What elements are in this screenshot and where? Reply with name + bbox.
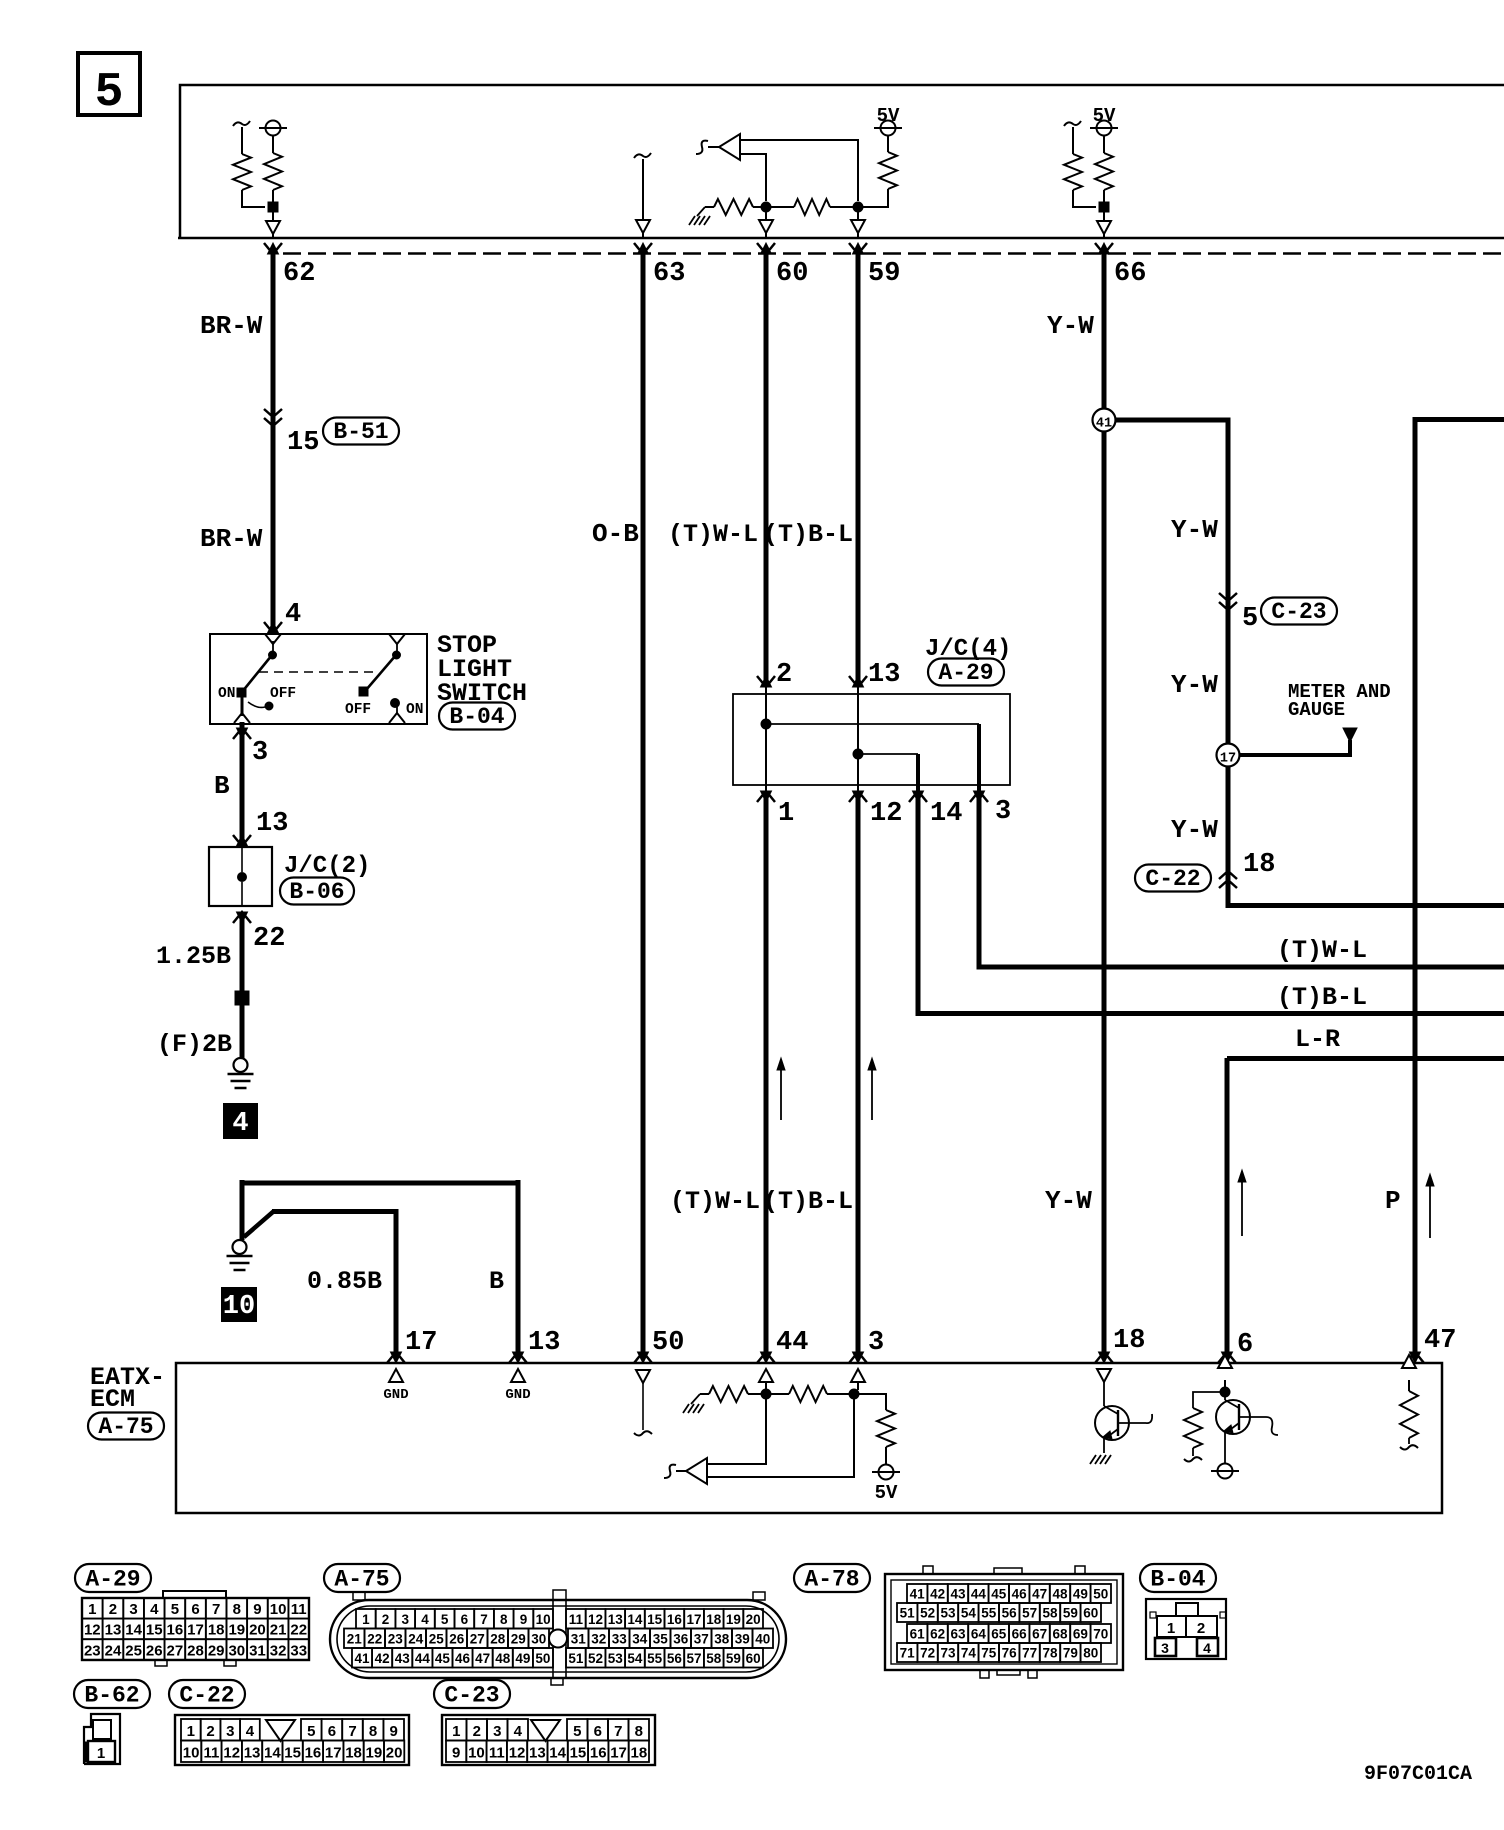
svg-text:17: 17 [187,1622,204,1639]
svg-text:Y-W: Y-W [1171,515,1218,545]
svg-text:69: 69 [1073,1627,1088,1642]
svg-text:8: 8 [500,1612,508,1627]
svg-text:45: 45 [435,1651,451,1666]
svg-text:4: 4 [150,1601,159,1618]
svg-text:25: 25 [429,1632,445,1647]
connector C-23 body [442,1715,655,1765]
svg-text:OFF: OFF [270,686,296,702]
svg-text:29: 29 [208,1642,225,1659]
svg-text:70: 70 [1093,1627,1108,1642]
wire 1.25B (J/C2 to splice) [240,912,245,998]
svg-text:6: 6 [328,1723,336,1740]
svg-text:8: 8 [369,1723,377,1740]
svg-text:7: 7 [348,1723,356,1740]
floating lead (pin 63) [634,153,651,158]
resistor R-b (pull-up pair right, pin 62) [272,136,274,154]
svg-text:C-23: C-23 [1271,599,1326,625]
svg-text:24: 24 [105,1642,122,1659]
svg-text:16: 16 [167,1622,184,1639]
resistor R-d (divider right) [771,206,794,208]
svg-text:17: 17 [687,1612,702,1627]
svg-text:30: 30 [531,1632,546,1647]
svg-text:50: 50 [652,1328,684,1358]
connector A-29 top tab [163,1591,226,1598]
svg-text:8: 8 [233,1601,241,1618]
connector A-75 body [330,1600,786,1678]
svg-text:4: 4 [514,1723,523,1740]
connector B-04 body [1146,1599,1226,1659]
ECM pin 6 [1218,1352,1236,1363]
svg-text:60: 60 [746,1651,761,1666]
svg-text:23: 23 [84,1642,101,1659]
svg-text:22: 22 [253,924,285,954]
GND symbol pin 17 [389,1369,403,1382]
svg-text:36: 36 [673,1632,689,1647]
wire 59 through J/C4 [857,687,859,791]
svg-text:44: 44 [415,1651,431,1666]
svg-text:12: 12 [84,1622,101,1639]
svg-text:41: 41 [355,1651,371,1666]
svg-text:11: 11 [291,1601,307,1618]
resistor R-i (Q2 base) [1193,1392,1225,1408]
svg-text:33: 33 [612,1632,628,1647]
svg-text:12: 12 [223,1745,240,1762]
arrow out J/C4 pin 12 [849,791,867,802]
svg-text:2: 2 [473,1723,481,1740]
pin 63 (top module) [634,243,652,254]
junction dot node 59 [853,202,863,212]
svg-text:19: 19 [726,1612,741,1627]
svg-text:37: 37 [694,1632,709,1647]
svg-text:2: 2 [109,1601,117,1618]
svg-text:6: 6 [461,1612,469,1627]
svg-text:6: 6 [191,1601,199,1618]
svg-text:6: 6 [1237,1330,1253,1360]
svg-text:GND: GND [505,1387,530,1403]
svg-text:54: 54 [961,1606,977,1621]
connector label oval B-62 [74,1680,150,1708]
svg-text:3: 3 [868,1328,884,1358]
ECM pin 47 [1406,1352,1424,1363]
junction circle 41 [1102,409,1107,431]
resistor R-j (pin 47) [1400,1391,1418,1438]
svg-text:43: 43 [950,1587,966,1602]
ground G4 [234,1058,248,1072]
svg-text:46: 46 [1012,1587,1028,1602]
svg-text:17: 17 [405,1328,437,1358]
svg-text:60: 60 [1083,1606,1098,1621]
svg-text:23: 23 [388,1632,404,1647]
svg-text:67: 67 [1032,1627,1047,1642]
svg-text:15: 15 [570,1745,587,1762]
svg-text:(T)W-L: (T)W-L [668,520,758,549]
arrow into pin 59 [857,212,859,220]
svg-text:45: 45 [991,1587,1007,1602]
power node circle (pin62 pull-up) [266,121,281,136]
transistor Q2 (pin 6) [1224,1392,1226,1400]
svg-text:2: 2 [1197,1620,1205,1637]
svg-text:15: 15 [647,1612,663,1627]
ECM pin 50 [634,1352,652,1363]
svg-text:5: 5 [441,1612,449,1627]
svg-text:17: 17 [610,1745,627,1762]
svg-text:9: 9 [253,1601,261,1618]
wire Y-W to bus right [1228,872,1504,906]
svg-text:33: 33 [290,1642,307,1659]
arrow right switch to box bottom [396,707,398,713]
svg-text:55: 55 [981,1606,997,1621]
flow arrow wire 47 [1429,1184,1431,1238]
svg-text:18: 18 [208,1622,225,1639]
svg-text:18: 18 [345,1745,362,1762]
svg-text:11: 11 [569,1612,584,1627]
wire 0.85B horizontal (to pin17) [244,1211,274,1237]
junction dot (pin62 network) [268,202,278,212]
arrow into pin 66 [1103,212,1105,221]
svg-text:52: 52 [920,1606,935,1621]
stop light switch box B-04 [210,634,427,724]
lead pin 47 triangle [1402,1355,1416,1368]
ground hatch Q1 emitter [1090,1455,1096,1464]
svg-text:47: 47 [475,1651,490,1666]
arrow out of J/C2 pin 22 [233,912,251,923]
svg-text:(T)B-L: (T)B-L [1277,983,1367,1012]
svg-text:53: 53 [608,1651,624,1666]
wire B down to pin 13 [516,1180,521,1352]
connector C-22 body [175,1715,409,1765]
svg-text:10: 10 [536,1612,551,1627]
svg-text:58: 58 [706,1651,722,1666]
resistor R-a (pull-up pair left, pin 62) [233,121,250,126]
svg-text:56: 56 [667,1651,683,1666]
ECM pin 18 [1095,1352,1113,1363]
svg-text:51: 51 [568,1651,584,1666]
resistor R-g (bottom divider left) [700,1393,709,1395]
svg-text:42: 42 [930,1587,945,1602]
svg-text:4: 4 [285,600,301,630]
svg-text:2: 2 [776,660,792,690]
svg-text:9: 9 [452,1745,460,1762]
junction dot J/C4 node B-L [853,749,863,759]
ECM pin 44 [757,1352,775,1363]
svg-text:21: 21 [347,1632,363,1647]
resistor R-h (bottom divider right) [771,1393,789,1395]
svg-text:18: 18 [1243,850,1275,880]
svg-text:0.85B: 0.85B [307,1267,382,1296]
arrow out J/C4 pin 3 [970,791,988,802]
inline connector B-51 pin 15 [264,409,282,417]
svg-text:11: 11 [204,1745,220,1762]
wire BR-W lower (B-51 to switch) [271,429,276,633]
svg-text:1.25B: 1.25B [156,942,231,971]
svg-text:20: 20 [746,1612,761,1627]
svg-text:71: 71 [900,1646,916,1661]
svg-text:78: 78 [1042,1646,1058,1661]
svg-text:28: 28 [490,1632,506,1647]
wire buffer top input to node 59 [740,140,858,201]
junction dot node 44 [761,1389,771,1399]
svg-text:77: 77 [1022,1646,1037,1661]
svg-text:60: 60 [776,259,808,289]
svg-text:27: 27 [470,1632,485,1647]
op-amp buffer U-top [719,134,740,160]
svg-text:1: 1 [452,1723,460,1740]
svg-text:59: 59 [1063,1606,1078,1621]
junction circle 17 [1217,744,1240,767]
wire BR-W upper (pin62 to B-51) [271,254,276,633]
svg-text:GND: GND [383,1387,408,1403]
svg-text:74: 74 [961,1646,977,1661]
wire (T)W-L (pin60 to J/C4) [764,254,769,684]
svg-text:40: 40 [755,1632,770,1647]
svg-text:BR-W: BR-W [200,524,263,554]
svg-text:59: 59 [868,259,900,289]
svg-text:63: 63 [653,259,685,289]
switch arm right (OFF side) [389,634,405,644]
wire (F)2B to ground [240,1005,245,1058]
svg-text:49: 49 [1073,1587,1088,1602]
svg-text:(F)2B: (F)2B [157,1030,232,1059]
junction box J/C(2) [209,847,272,906]
wire node 14 to (T)B-L bus [918,791,1504,1014]
svg-text:4: 4 [232,1109,248,1139]
ground hatch (top divider) [697,207,705,216]
svg-text:41: 41 [1096,417,1112,432]
svg-text:22: 22 [367,1632,382,1647]
svg-text:16: 16 [667,1612,683,1627]
svg-text:28: 28 [187,1642,204,1659]
svg-text:3: 3 [226,1723,234,1740]
svg-text:13: 13 [528,1328,560,1358]
svg-text:10: 10 [270,1601,287,1618]
svg-text:14: 14 [627,1612,643,1627]
svg-text:13: 13 [244,1745,261,1762]
junction dot node 6 [1220,1387,1230,1397]
wire O-B (pin63 to pin50) [641,254,646,1352]
svg-text:5: 5 [1242,604,1258,634]
ground ref box 4 [224,1104,257,1138]
svg-text:76: 76 [1002,1646,1018,1661]
svg-text:48: 48 [495,1651,511,1666]
svg-text:55: 55 [647,1651,663,1666]
svg-text:43: 43 [395,1651,411,1666]
svg-text:14: 14 [264,1745,281,1762]
connector A-75 tabs [353,1592,365,1600]
connector label oval A-78 [794,1564,870,1592]
connector oval C-23 (inline) [1261,598,1337,625]
arrow into J/C4 pin 2 [757,676,775,687]
svg-text:C-22: C-22 [179,1683,234,1709]
svg-text:10: 10 [223,1292,255,1322]
switch arm left (ON side) [272,641,274,655]
lead pin 6 triangle [1218,1355,1232,1368]
wire Y-W (17 to C-22) [1226,766,1231,906]
svg-text:1: 1 [88,1601,96,1618]
svg-text:B: B [214,771,230,801]
svg-text:C-23: C-23 [444,1683,499,1709]
wire from 41 to C-23 branch [1115,420,1228,744]
svg-text:31: 31 [571,1632,587,1647]
svg-text:O-B: O-B [592,519,639,549]
svg-text:59: 59 [726,1651,741,1666]
svg-text:B-62: B-62 [84,1683,139,1709]
svg-text:Y-W: Y-W [1047,311,1094,341]
svg-text:25: 25 [125,1642,142,1659]
flow arrow wire 3 [871,1068,873,1120]
svg-text:11: 11 [489,1745,505,1762]
svg-text:5: 5 [171,1601,179,1618]
svg-text:49: 49 [515,1651,530,1666]
pin 60 (top module) [757,243,775,254]
svg-text:41: 41 [910,1587,926,1602]
svg-text:9: 9 [520,1612,528,1627]
svg-text:66: 66 [1012,1627,1028,1642]
wire B (switch to J/C2) [240,722,245,839]
svg-text:39: 39 [735,1632,750,1647]
inline connector C-22 pin 18 [1219,880,1237,888]
arrow into switch pin 4 [264,622,282,633]
lead pin 44 triangle [759,1369,773,1382]
svg-text:12: 12 [588,1612,603,1627]
svg-text:1: 1 [778,799,794,829]
arrow into J/C2 [233,835,251,846]
svg-text:22: 22 [290,1622,307,1639]
wire node3 to buffer bottom input [707,1399,854,1477]
svg-text:68: 68 [1052,1627,1068,1642]
connector label oval C-23 [434,1680,510,1708]
svg-text:A-75: A-75 [98,1414,153,1440]
svg-text:16: 16 [590,1745,607,1762]
transistor Q1 (pin 18) [1095,1406,1129,1440]
pin 59 (top module) [849,243,867,254]
svg-text:46: 46 [455,1651,471,1666]
arrow out J/C4 pin 14 [909,791,927,802]
svg-text:B-51: B-51 [333,419,388,445]
svg-text:1: 1 [97,1745,105,1762]
op-amp buffer U-bot [686,1458,707,1484]
wire node 3 to (T)W-L bus [979,791,1504,967]
arrow out J/C4 pin 1 [757,791,775,802]
svg-text:OFF: OFF [345,702,371,718]
svg-text:21: 21 [270,1622,287,1639]
svg-text:31: 31 [249,1642,266,1659]
svg-text:5V: 5V [875,1482,898,1504]
wire (T)B-L down (J/C4 pin12 to ECM 3) [856,791,861,1352]
svg-text:50: 50 [535,1651,550,1666]
svg-text:A-29: A-29 [85,1567,140,1593]
svg-text:3: 3 [129,1601,137,1618]
svg-text:65: 65 [991,1627,1007,1642]
wire 60 through J/C4 [765,687,767,791]
connector B-62 body [84,1714,120,1764]
junction dot (pin66 network) [1099,202,1109,212]
svg-text:3: 3 [401,1612,409,1627]
svg-text:19: 19 [228,1622,245,1639]
connector label oval C-22 [169,1680,245,1708]
svg-text:1: 1 [1167,1620,1175,1637]
wire node44 to buffer top input [707,1399,766,1464]
svg-text:13: 13 [608,1612,624,1627]
svg-text:8: 8 [635,1723,643,1740]
svg-text:38: 38 [714,1632,730,1647]
connector A-29 body [82,1598,103,1619]
connector A-78 tabs [923,1566,933,1574]
pin 66 (top module) [1095,243,1113,254]
svg-text:54: 54 [627,1651,643,1666]
wire top right corner [1415,417,1504,422]
EATX-ECM box A-75 [176,1363,1442,1513]
resistor R-c (divider left) [705,206,714,208]
connector oval C-22 (inline) [1135,865,1211,892]
svg-text:B: B [489,1267,504,1296]
svg-text:5: 5 [573,1723,581,1740]
svg-text:3: 3 [252,738,268,768]
connector oval B-51 [323,418,399,445]
svg-text:17: 17 [325,1745,342,1762]
svg-text:2: 2 [206,1723,214,1740]
svg-text:80: 80 [1083,1646,1098,1661]
svg-text:73: 73 [940,1646,956,1661]
connector oval B-04 (switch) [439,703,515,730]
svg-text:Y-W: Y-W [1045,1186,1092,1216]
svg-text:ON: ON [218,686,235,702]
svg-text:52: 52 [588,1651,603,1666]
svg-text:26: 26 [146,1642,163,1659]
ON contact dot (right) [391,699,400,708]
junction dot node 60 [761,202,771,212]
svg-text:J/C(2): J/C(2) [284,853,370,880]
svg-text:6: 6 [594,1723,602,1740]
svg-text:75: 75 [981,1646,997,1661]
svg-text:18: 18 [706,1612,722,1627]
ECM pin 3 [849,1352,867,1363]
svg-text:32: 32 [591,1632,606,1647]
flow arrow wire 44 [780,1068,782,1120]
svg-text:47: 47 [1424,1326,1456,1356]
wire Y-W (pin66 down to ECM 18) [1102,254,1107,1352]
svg-text:57: 57 [687,1651,702,1666]
svg-text:17: 17 [1220,752,1236,767]
svg-text:20: 20 [249,1622,266,1639]
svg-text:5: 5 [307,1723,315,1740]
svg-text:79: 79 [1063,1646,1078,1661]
connector label oval B-04 [1140,1564,1216,1592]
svg-text:P: P [1385,1186,1401,1216]
svg-text:(T)W-L: (T)W-L [670,1187,760,1216]
connector oval B-06 [280,878,354,905]
wire (T)W-L down (J/C4 pin1 to ECM 44) [764,791,769,1352]
switch travel dashed line [259,671,377,673]
svg-text:27: 27 [167,1642,184,1659]
svg-text:44: 44 [776,1328,808,1358]
svg-text:A-75: A-75 [334,1567,389,1593]
svg-text:13: 13 [105,1622,122,1639]
svg-text:24: 24 [408,1632,424,1647]
svg-text:BR-W: BR-W [200,311,263,341]
svg-text:3: 3 [995,797,1011,827]
junction box J/C(4) [733,694,1010,785]
svg-text:15: 15 [146,1622,163,1639]
svg-text:A-29: A-29 [938,660,993,686]
junction dot J/C4 node W-L [761,719,771,729]
svg-text:9: 9 [390,1723,398,1740]
svg-text:16: 16 [305,1745,322,1762]
connector label oval A-75 [324,1564,400,1592]
svg-text:1: 1 [362,1612,370,1627]
svg-text:15: 15 [287,428,319,458]
svg-text:Y-W: Y-W [1171,670,1218,700]
svg-text:72: 72 [920,1646,935,1661]
